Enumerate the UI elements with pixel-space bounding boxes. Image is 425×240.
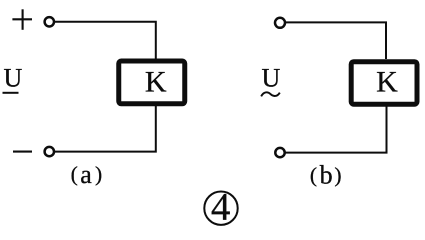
relay box K (a) bbox=[119, 61, 185, 104]
terminal (a) bottom bbox=[45, 147, 54, 156]
wire (a) bottom bbox=[55, 106, 156, 152]
caption (a) bbox=[71, 160, 103, 189]
terminal (b) top bbox=[275, 18, 285, 28]
svg-text:): ) bbox=[95, 162, 102, 186]
tilde under U (b) bbox=[261, 92, 280, 96]
terminal (a) top bbox=[45, 17, 54, 26]
caption (b) bbox=[310, 161, 342, 190]
svg-text:): ) bbox=[334, 163, 341, 187]
terminal (b) bottom bbox=[275, 148, 284, 157]
wire (b) top bbox=[286, 22, 386, 59]
plus polarity mark bbox=[12, 9, 32, 30]
svg-text:K: K bbox=[376, 65, 398, 98]
svg-text:b: b bbox=[320, 161, 333, 190]
minus polarity mark bbox=[13, 151, 32, 153]
svg-text:(: ( bbox=[310, 163, 317, 187]
svg-text:a: a bbox=[80, 160, 92, 189]
figure number circle bbox=[204, 192, 237, 225]
svg-text:K: K bbox=[145, 66, 167, 99]
svg-text:4: 4 bbox=[211, 186, 231, 228]
svg-text:(: ( bbox=[71, 162, 78, 186]
wire (a) top bbox=[55, 22, 156, 59]
relay box K (b) bbox=[351, 62, 417, 104]
underline of U (a) bbox=[3, 92, 19, 94]
svg-text:U: U bbox=[4, 63, 23, 92]
wire (b) bottom bbox=[285, 107, 387, 153]
svg-text:U: U bbox=[262, 64, 281, 93]
